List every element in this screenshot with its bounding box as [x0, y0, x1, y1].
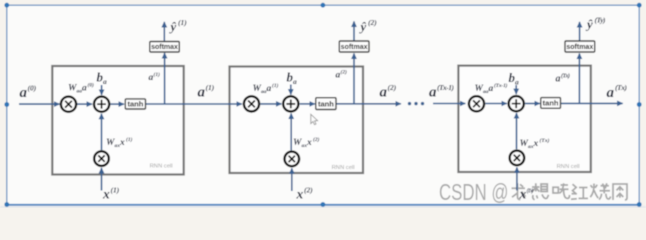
svg-text:ŷ: ŷ	[169, 20, 177, 34]
svg-text:a: a	[267, 84, 272, 94]
svg-text:a: a	[607, 85, 615, 101]
svg-text:a: a	[489, 84, 494, 94]
svg-text:a: a	[293, 77, 297, 86]
svg-text:(1): (1)	[126, 136, 133, 143]
svg-text:RNN cell: RNN cell	[150, 164, 173, 170]
svg-text:a: a	[556, 74, 561, 85]
svg-text:(1): (1)	[111, 186, 120, 195]
svg-text:CSDN @: CSDN @	[439, 179, 509, 205]
svg-text:(2): (2)	[368, 18, 377, 27]
svg-text:(0): (0)	[28, 84, 37, 93]
svg-text:softmax: softmax	[566, 44, 593, 51]
svg-text:tanh: tanh	[127, 100, 143, 109]
svg-text:x: x	[296, 187, 304, 202]
svg-text:a: a	[515, 78, 519, 87]
svg-text:(2): (2)	[313, 136, 320, 143]
svg-text:(Tx): (Tx)	[540, 137, 550, 144]
svg-text:a: a	[429, 85, 437, 101]
svg-text:RNN cell: RNN cell	[332, 165, 355, 171]
svg-text:x: x	[519, 187, 527, 202]
svg-text:ŷ: ŷ	[585, 18, 593, 32]
svg-text:a: a	[82, 84, 87, 94]
svg-text:(Tx): (Tx)	[527, 188, 534, 195]
svg-text:(1): (1)	[272, 82, 279, 89]
svg-text:(Ty): (Ty)	[595, 16, 607, 25]
svg-text:ŷ: ŷ	[359, 20, 367, 34]
svg-text:(Tx-1): (Tx-1)	[494, 82, 508, 89]
svg-text:(2): (2)	[388, 83, 397, 92]
svg-text:tanh: tanh	[318, 99, 334, 108]
svg-text:a: a	[103, 77, 107, 86]
svg-text:tanh: tanh	[543, 99, 559, 108]
svg-text:x: x	[102, 187, 110, 202]
svg-text:a: a	[20, 85, 28, 101]
svg-text:(2): (2)	[341, 69, 348, 76]
svg-text:RNN cell: RNN cell	[557, 164, 580, 170]
svg-text:(0): (0)	[88, 82, 95, 89]
svg-text:x: x	[533, 139, 539, 149]
svg-text:(1): (1)	[178, 18, 187, 27]
svg-text:(1): (1)	[206, 83, 215, 92]
svg-text:x: x	[119, 138, 125, 148]
svg-text:(Tx): (Tx)	[615, 83, 628, 92]
svg-text:(2): (2)	[304, 186, 313, 195]
svg-text:(Tx): (Tx)	[561, 73, 570, 80]
svg-text:softmax: softmax	[341, 44, 368, 51]
svg-text:(Tx-1): (Tx-1)	[437, 83, 455, 92]
svg-text:a: a	[198, 85, 206, 101]
svg-text:a: a	[380, 85, 388, 101]
svg-text:(1): (1)	[154, 71, 161, 78]
svg-text:x: x	[306, 138, 312, 148]
svg-text:softmax: softmax	[151, 44, 178, 51]
